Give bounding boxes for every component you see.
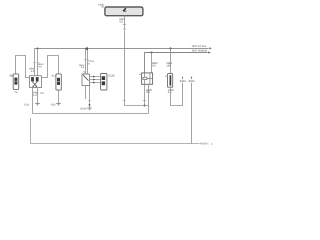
svg-text:a: a: [211, 143, 213, 146]
wire from fuse to stub S1: [171, 83, 183, 105]
relay pin wire to splice: [144, 84, 146, 105]
connector MC body: [101, 74, 107, 91]
wire W1 connector tick: [123, 23, 127, 25]
ground G3: [87, 107, 92, 109]
icon inside box U1: [123, 8, 127, 12]
junction dot on WL2: [37, 47, 39, 49]
svg-text:G12: G12: [51, 103, 56, 106]
bus B2 right arrow: [208, 51, 211, 53]
stub label ST2: [189, 79, 195, 82]
left branch wire WL2: [37, 48, 39, 75]
relay K1 coil: [143, 77, 147, 79]
svg-text:1.0: 1.0: [33, 94, 37, 97]
connector LC1 pin 2: [14, 81, 17, 84]
link wire from W1 to splice: [125, 105, 149, 107]
relay K1 side tick: [139, 73, 142, 75]
svg-text:42: 42: [9, 75, 12, 78]
connector LC1 body: [13, 74, 19, 90]
svg-text:G11: G11: [24, 103, 29, 106]
relay K1 feed wire A: [144, 53, 146, 73]
svg-text:C2: C2: [40, 92, 44, 95]
stub ST2 top arrow: [191, 76, 193, 78]
svg-text:S210: S210: [180, 80, 187, 83]
loop wire P1 to component LC1: [16, 56, 30, 78]
switch S1 pole 1: [31, 77, 34, 81]
svg-text:0.5: 0.5: [168, 91, 172, 94]
connector RC1 pin 2: [57, 82, 60, 85]
fuse F1 feed wire: [170, 48, 172, 73]
tick on W1 lower: [122, 99, 126, 101]
relay K1 feed wire B: [151, 53, 153, 73]
stub ST2 wire: [191, 78, 193, 144]
junction blob mid: [86, 47, 88, 49]
bus B1 right arrow: [209, 47, 212, 49]
svg-text:0.5: 0.5: [146, 91, 150, 94]
connector RC1 body: [56, 74, 61, 90]
connector LC1 pin 1: [14, 78, 17, 81]
svg-text:7a: 7a: [14, 91, 17, 94]
ground G1: [35, 102, 40, 104]
svg-text:30: 30: [101, 6, 104, 9]
splice dot on S2 ground wire: [89, 104, 91, 106]
svg-text:G104: G104: [80, 107, 87, 110]
relay K1 body: [142, 73, 153, 84]
switch S2 contact ray 1: [90, 76, 101, 78]
stub label ST1: [180, 79, 186, 82]
loop wire P2 to component RC1: [41, 56, 58, 78]
relay pin tick: [143, 100, 146, 102]
svg-text:0.5: 0.5: [152, 64, 156, 67]
switch S1 crossing contacts: [33, 82, 37, 87]
wire from S1 to ground bus: [32, 88, 34, 114]
fuse F1 side tick: [165, 75, 168, 77]
switch S2 lever: [83, 75, 88, 80]
switch S1 pole 2: [36, 77, 39, 81]
junction dot on B1 at fuse wire: [169, 47, 171, 49]
splice dot SP1: [144, 105, 146, 107]
power distribution box U1: [105, 7, 143, 16]
junction dot on B2: [150, 51, 152, 53]
RC1 side tick: [53, 75, 56, 77]
svg-text:0.5: 0.5: [119, 20, 123, 23]
ground bus GB: [33, 113, 149, 115]
middle branch wire WM2: [87, 48, 89, 74]
middle branch wire WM: [85, 48, 87, 74]
wire S2 bottom pin 1: [85, 86, 87, 99]
bus line B1 (hot feed): [35, 47, 209, 49]
svg-text:HOT IN RUN: HOT IN RUN: [192, 50, 207, 53]
svg-text:0.5: 0.5: [81, 66, 85, 69]
connector MC pin 2: [102, 81, 105, 85]
WM connector tick: [84, 58, 89, 60]
switch S1 contact arrow tips: [32, 86, 34, 88]
fuse F1 element: [169, 75, 171, 85]
wire RC1 to ground G2: [58, 90, 60, 103]
fuse F1 body: [168, 74, 173, 88]
connector MC pin 1: [102, 76, 105, 80]
svg-text:P100 1: P100 1: [200, 143, 209, 146]
wire W1 from box U1 down: [124, 16, 126, 106]
ground G2: [56, 102, 61, 104]
LC1 side tick: [11, 75, 14, 77]
stub ST1 top arrow: [182, 76, 184, 78]
switch S2 contact ray 2: [90, 79, 101, 81]
wire S2 bottom pin 2 to ground G3: [89, 86, 91, 108]
svg-text:C115: C115: [108, 74, 115, 77]
bus line B2 (lower feed): [145, 53, 208, 73]
left branch wire WL1: [34, 48, 36, 75]
switch S1 body: [30, 76, 42, 88]
tick on S2 ground wire: [88, 100, 91, 102]
svg-text:S211: S211: [189, 80, 196, 83]
relay K1 contact: [149, 73, 151, 84]
enclosure outline: [31, 118, 200, 144]
svg-text:HOT AT ALL: HOT AT ALL: [192, 45, 207, 48]
ticks on left branch wires: [33, 62, 36, 64]
wire from S1 to ground G1: [37, 88, 39, 104]
switch S2 contact ray 3: [90, 82, 101, 84]
relay pin wire to ground bus: [148, 84, 150, 113]
svg-text:15A: 15A: [166, 64, 171, 67]
switch S2 body: [82, 74, 90, 86]
connector RC1 pin 1: [57, 78, 60, 81]
